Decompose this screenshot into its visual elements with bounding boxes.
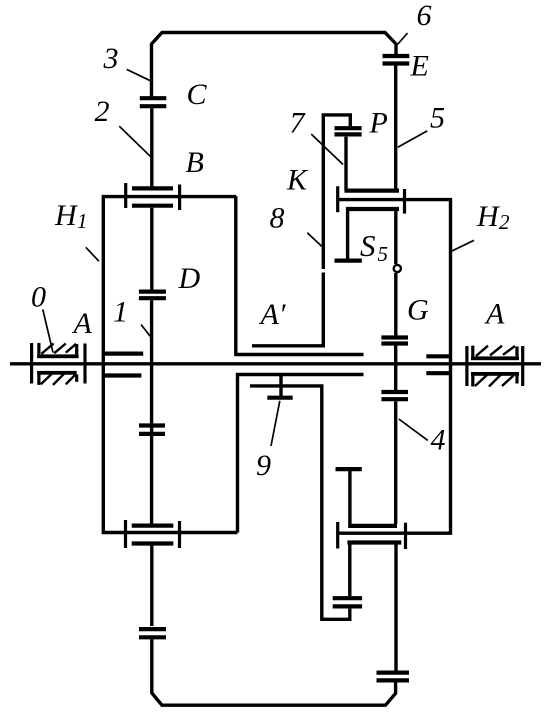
svg-text:B: B (186, 146, 204, 179)
svg-text:A: A (72, 307, 93, 340)
gear mesh B left tick (124, 183, 127, 208)
wire: right shaft from bottom mesh down to capacitor (394, 545, 397, 671)
sleeve lower line L4 with lower K leg and bracket (250, 386, 350, 619)
clutch right half-coupling upper bar (426, 354, 450, 358)
svg-text:6: 6 (417, 0, 432, 32)
svg-text:E: E (410, 49, 429, 82)
leader line for label 2 (119, 126, 151, 157)
gear mesh bottom-left right tick (178, 521, 181, 548)
gear mesh right-top right tick (403, 189, 406, 214)
svg-text:0: 0 (31, 281, 46, 314)
svg-text:1: 1 (113, 296, 128, 329)
svg-text:4: 4 (431, 424, 446, 457)
leader line for label H2 (451, 240, 474, 251)
wire: link 2 shaft segment between C and B (150, 108, 153, 187)
carrier H1 right vertical lower with sleeve L3 (238, 375, 364, 533)
svg-text:H: H (476, 200, 501, 233)
leader line for label 0 (43, 309, 53, 352)
svg-text:5: 5 (378, 242, 389, 266)
capacitor 4 (gear 4 mesh symbol) (381, 392, 408, 399)
gear mesh right-top lower bar (346, 207, 399, 211)
gear mesh right-top upper bar (345, 189, 400, 193)
planet tee lower (stub with tee bar) (336, 467, 362, 471)
bearing A left (32, 343, 85, 385)
clutch left half-coupling upper bar (103, 352, 143, 356)
leader line for label 3 (127, 69, 151, 80)
svg-text:1: 1 (77, 209, 88, 233)
gear mesh bottom-left upper bar (132, 523, 174, 527)
wire: shaft G above joint (394, 211, 397, 264)
leader line for label 6 (398, 33, 408, 45)
svg-text:5: 5 (430, 102, 445, 135)
capacitor G (gear G mesh symbol) (381, 338, 408, 344)
leader line for label 8 (307, 233, 322, 247)
gear mesh bottom-right lower bar (347, 540, 401, 544)
svg-text:C: C (187, 78, 208, 111)
carrier H2 frame (top bar, right vertical, bottom bar) (336, 200, 450, 534)
svg-text:K: K (286, 164, 309, 197)
svg-text:D: D (178, 262, 201, 295)
svg-text:P: P (369, 107, 388, 140)
svg-text:2: 2 (95, 95, 110, 128)
gear mesh bottom-left lower bar (132, 541, 174, 545)
sleeve A' upper line L1 joining link K leg (252, 273, 323, 346)
capacitor C (gear C mesh symbol) (140, 98, 167, 106)
axis centre line (10, 362, 541, 365)
svg-text:7: 7 (290, 107, 307, 140)
gear mesh bottom-right left tick (336, 522, 339, 549)
svg-text:A′: A′ (259, 298, 286, 331)
wire: leg from bottom-right mesh down to capacitor (348, 545, 351, 597)
wire: bottom rim link connecting left shaft to right shaft (152, 639, 396, 705)
bearing A right (467, 346, 523, 387)
svg-text:2: 2 (499, 210, 510, 234)
carrier H1 right vertical upper with sleeve L2 (236, 196, 364, 354)
leader line for label H1 (86, 247, 99, 261)
leader line for label 4 (399, 419, 428, 440)
carrier H1 frame (top bar, left vertical, bottom bar) (103, 197, 237, 533)
gear mesh B upper bar (132, 186, 173, 190)
capacitor E (gear E mesh symbol) (383, 56, 410, 64)
clutch right half-coupling lower bar (426, 371, 450, 375)
leader line for label 5 (398, 131, 427, 147)
gear mesh B lower bar (132, 204, 173, 208)
capacitor D (gear D mesh symbol) (139, 292, 166, 299)
svg-text:9: 9 (256, 449, 271, 482)
capacitor bottom-right (377, 673, 410, 681)
link K leg upper part with bracket to P (323, 115, 350, 269)
gear mesh bottom-right upper bar (348, 524, 397, 528)
joint S5 circle node (394, 265, 401, 272)
wire: shaft 1 central vertical through axis (150, 300, 153, 524)
gear mesh B right tick (178, 185, 181, 211)
capacitor lower-K (gear mesh symbol) (333, 598, 362, 606)
gear mesh bottom-left left tick (124, 520, 127, 548)
leader line for label 7 (311, 134, 343, 164)
planet 9 stub with tee (279, 375, 282, 397)
svg-text:A: A (484, 298, 505, 331)
capacitor on shaft 1 below axis (139, 426, 165, 434)
wire: shaft segment between B and D (150, 208, 153, 290)
gear mesh bottom-right right tick (404, 523, 407, 549)
capacitor P (gear P mesh symbol) (335, 128, 362, 134)
leader line for label 9 (271, 401, 280, 446)
wire: shaft G below joint (394, 273, 397, 336)
wire: shaft 5 from E down to right mesh (394, 66, 397, 191)
wire: shaft 1 lower segment (150, 546, 153, 627)
clutch left half-coupling lower bar (103, 373, 141, 377)
sun gear S5 stub with tee (346, 211, 349, 259)
capacitor bottom-left (139, 629, 166, 637)
leader line for label 1 (141, 325, 152, 339)
gear mesh right-top left tick (336, 186, 339, 212)
wire: shaft 4 down to bottom mesh (394, 401, 397, 524)
wire: P leg down to right mesh (344, 137, 347, 191)
wire: top rim link connecting gear C shaft to gear E shaft (152, 33, 397, 98)
wire: shaft between G and 4 (394, 346, 397, 391)
svg-text:H: H (54, 199, 79, 232)
svg-text:G: G (407, 294, 429, 327)
svg-text:8: 8 (270, 202, 285, 235)
svg-text:3: 3 (103, 42, 119, 75)
svg-text:S: S (360, 228, 376, 263)
